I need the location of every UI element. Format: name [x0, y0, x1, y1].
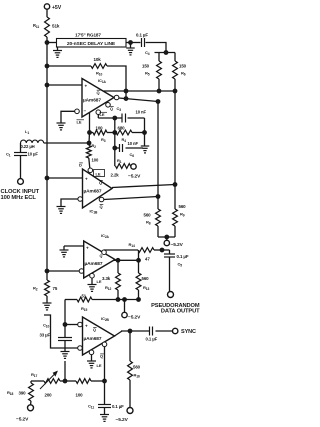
- svg-text:75: 75: [53, 286, 58, 291]
- op-amp IC2B uAm687: [83, 316, 115, 355]
- bottom node rail: [116, 298, 140, 302]
- IC2B Qbar bubble: [102, 342, 107, 347]
- ground IC2B LE: [87, 355, 96, 368]
- wire node down: [114, 118, 116, 166]
- svg-text:100 MHz ECL: 100 MHz ECL: [1, 195, 37, 201]
- wire R13 top: [138, 250, 140, 261]
- wire IC1B minus to ground: [61, 199, 78, 207]
- delay line box: [57, 39, 127, 48]
- IC2A + ground: [60, 246, 84, 257]
- label 100 MHz ECL: [1, 195, 37, 201]
- wire to IC2B +: [65, 324, 78, 326]
- svg-text:D: D: [79, 163, 82, 168]
- label 10nF C3 value: [136, 110, 147, 115]
- label cable 17'5 RG187: [75, 33, 101, 38]
- wire C3 bubble stem: [97, 114, 99, 118]
- svg-text:10 nF: 10 nF: [128, 141, 139, 146]
- svg-text:10k: 10k: [94, 57, 102, 62]
- svg-text:3.3k: 3.3k: [102, 276, 111, 281]
- wire rail to R10: [47, 65, 91, 67]
- resistor R12 3.3k: [102, 260, 120, 299]
- label IC2B Qbar: [100, 354, 104, 359]
- IC1A Qbar bubble: [114, 95, 119, 100]
- svg-text:560: 560: [144, 213, 152, 218]
- svg-text:+5V: +5V: [52, 5, 62, 11]
- svg-text:Q: Q: [97, 90, 100, 95]
- svg-text:−5.2V: −5.2V: [171, 242, 184, 248]
- wire IC1A edge tap down: [88, 113, 91, 143]
- resistor R8 560: [144, 209, 161, 237]
- capacitor C4 0.1uF: [136, 32, 150, 56]
- wire Qbar down: [104, 347, 106, 405]
- IC2A output row: [114, 258, 140, 262]
- node delay output: [129, 41, 133, 45]
- label D bar: [79, 163, 83, 168]
- capacitor C6 10nF: [115, 141, 143, 158]
- IC2A Q bubble top: [102, 250, 107, 255]
- resistor R14 47: [138, 248, 154, 262]
- node IC1A + input: [45, 83, 49, 87]
- capacitor C11 0.1uF: [88, 404, 124, 415]
- label DATA OUTPUT: [161, 309, 200, 315]
- op-amp IC2A uAm687: [84, 233, 115, 278]
- capacitor C9 0.1uF sync: [146, 327, 173, 342]
- resistor R6 150: [173, 53, 187, 92]
- svg-text:+: +: [86, 246, 89, 251]
- resistor R4 680: [115, 126, 145, 144]
- node rail 10k row: [45, 64, 49, 68]
- wire +5V to R11: [46, 9, 48, 17]
- svg-text:µAm687: µAm687: [84, 189, 102, 195]
- resistor R2 100 vertical: [86, 144, 99, 168]
- svg-text:LE: LE: [77, 120, 82, 125]
- IC2A LE label: [97, 279, 102, 284]
- wire delay line output: [126, 42, 141, 44]
- svg-text:10 nF: 10 nF: [136, 110, 147, 115]
- node C10: [63, 323, 67, 327]
- IC2B + bubble: [78, 322, 83, 327]
- svg-text:LE: LE: [100, 112, 105, 117]
- IC1B Q output row: [112, 183, 177, 188]
- svg-text:+: +: [85, 84, 88, 89]
- label LE box IC1B: [94, 170, 105, 177]
- op-amp IC1B uAm687: [83, 169, 113, 215]
- node rail IC1B +: [45, 176, 49, 180]
- svg-text:150: 150: [142, 64, 150, 69]
- node rail-box junction: [45, 41, 49, 45]
- resistor R3 100: [88, 126, 115, 144]
- wire rail to delay line: [47, 42, 57, 44]
- IC1A LE bubble left: [75, 109, 80, 114]
- wire rail to IC2A bubble: [47, 270, 79, 272]
- capacitor C10 33uF: [40, 323, 73, 352]
- svg-text:−5.2V: −5.2V: [128, 315, 141, 321]
- IC1B Qbar row: [104, 195, 160, 200]
- svg-text:SYNC: SYNC: [181, 329, 196, 335]
- wire R14 to C5: [154, 248, 170, 252]
- svg-text:0.1 µF: 0.1 µF: [177, 254, 189, 259]
- svg-text:µAm687: µAm687: [84, 336, 102, 342]
- svg-text:33 µF: 33 µF: [40, 333, 51, 338]
- IC2B LE bubble: [89, 350, 94, 355]
- ground under delay line input: [53, 47, 62, 57]
- svg-text:+: +: [85, 177, 88, 182]
- clock input terminal: [18, 179, 24, 185]
- label R14: [129, 242, 136, 248]
- resistor R13 560: [136, 260, 149, 299]
- -5.2V terminal bottom left: [16, 405, 34, 423]
- svg-text:10 µF: 10 µF: [28, 152, 39, 157]
- svg-text:560: 560: [179, 204, 187, 209]
- pseudorandom output terminal: [168, 292, 174, 298]
- svg-text:51k: 51k: [52, 24, 60, 29]
- wire R16 to term: [129, 380, 131, 408]
- ground IC1B minus: [57, 207, 66, 214]
- IC1A LEbar label: [100, 112, 108, 117]
- wire V2 down: [174, 91, 176, 209]
- wire C10 stem to row: [64, 361, 66, 381]
- IC1B minus bubble: [78, 197, 83, 202]
- wire LE bubble to ground: [61, 111, 75, 123]
- +5V supply terminal: [44, 4, 61, 11]
- ground IC2A LE: [88, 278, 97, 291]
- resistor R1 2.2k: [111, 158, 131, 178]
- wire to R16: [129, 331, 131, 361]
- svg-text:17'5" RG187: 17'5" RG187: [75, 33, 101, 38]
- label CLOCK INPUT: [1, 189, 40, 195]
- svg-text:560: 560: [133, 365, 141, 370]
- svg-text:0.1 µF: 0.1 µF: [146, 337, 158, 342]
- svg-text:+: +: [85, 324, 88, 329]
- ground C10: [61, 352, 70, 359]
- wire Q bubble to R14 row: [104, 249, 138, 251]
- svg-text:0.22 µH: 0.22 µH: [21, 144, 35, 149]
- wire rail to IC1A +: [47, 84, 82, 86]
- svg-text:390: 390: [19, 391, 27, 396]
- IC1A Qbar output line: [119, 97, 160, 104]
- bottom row wire: [31, 379, 105, 383]
- IC2B LE label: [97, 363, 102, 368]
- wire col R8: [157, 197, 159, 210]
- svg-text:−5.2V: −5.2V: [116, 417, 129, 423]
- svg-text:150: 150: [179, 64, 187, 69]
- node L1 feed: [87, 141, 91, 145]
- node rail IC2A minus: [45, 269, 49, 273]
- svg-text:0.1 µF: 0.1 µF: [136, 32, 148, 37]
- op-amp IC1A uAm687: [82, 78, 114, 117]
- svg-text:47: 47: [145, 257, 150, 262]
- top rail of R5 R6: [155, 51, 176, 55]
- svg-text:Q: Q: [100, 204, 103, 209]
- ground C6: [141, 146, 150, 153]
- svg-text:LE: LE: [97, 363, 102, 368]
- IC2B output to sync: [115, 329, 150, 336]
- -5.2V terminal right: [164, 237, 183, 248]
- IC1B D input bubble: [88, 168, 93, 173]
- capacitor C3: [98, 102, 158, 197]
- label Qbar IC1B: [100, 204, 104, 209]
- svg-text:100: 100: [76, 393, 84, 398]
- svg-text:Q: Q: [99, 180, 102, 185]
- svg-text:Q: Q: [93, 328, 96, 332]
- IC1A Q edge bubble: [106, 103, 111, 108]
- IC1A output Q line: [104, 89, 177, 93]
- label PSEUDORANDOM: [151, 303, 200, 309]
- svg-text:680: 680: [118, 126, 126, 131]
- resistor R5 150: [142, 53, 161, 92]
- svg-text:560: 560: [142, 276, 150, 281]
- -5.2V terminal bottom right: [116, 408, 134, 424]
- resistor R11 51k: [33, 17, 60, 37]
- wire R4 corner to ground: [0, 0, 1, 1]
- wire C4 to resistor rail: [146, 43, 167, 53]
- svg-text:2.2k: 2.2k: [111, 173, 120, 178]
- resistor R10 10k: [91, 57, 107, 77]
- ground C11: [100, 415, 109, 422]
- svg-text:−5.2V: −5.2V: [16, 417, 29, 423]
- svg-text:Q: Q: [100, 254, 103, 258]
- IC2B minus feed: [44, 315, 78, 348]
- -5.2V terminal mid: [128, 164, 141, 180]
- svg-text:µAm687: µAm687: [83, 98, 101, 104]
- ground at delay output: [126, 43, 135, 55]
- svg-text:20-nSEC DELAY LINE: 20-nSEC DELAY LINE: [67, 41, 116, 47]
- bottom rail R8R9: [158, 235, 175, 239]
- inductor L1 0.22uH: [21, 129, 90, 149]
- svg-text:µAm687: µAm687: [85, 261, 103, 267]
- svg-text:100: 100: [92, 158, 99, 163]
- IC1A LE label: [77, 120, 85, 125]
- IC2A LE bubble: [90, 273, 95, 278]
- wire rail to R2: [46, 271, 48, 280]
- resistor R19 100: [76, 379, 92, 398]
- svg-text:200: 200: [45, 393, 53, 398]
- IC2B minus bubble: [78, 346, 83, 351]
- IC1A LEbar bubble: [96, 110, 101, 115]
- ground R2: [43, 303, 52, 310]
- svg-text:−5.2V: −5.2V: [128, 174, 141, 180]
- SYNC terminal: [173, 328, 197, 335]
- resistor R2 75: [33, 280, 58, 303]
- IC2A minus bubble: [79, 269, 84, 274]
- wire rail to IC1B +: [47, 177, 83, 179]
- svg-text:100: 100: [96, 126, 104, 131]
- wire down to D row: [64, 300, 66, 325]
- svg-text:−: −: [84, 109, 87, 114]
- resistor R15: [65, 293, 118, 312]
- IC1B Qbar bubble bottom: [99, 197, 104, 202]
- node bottom row right: [103, 379, 107, 383]
- wire R10 to feed corner: [107, 66, 126, 99]
- svg-text:LE: LE: [96, 172, 101, 177]
- svg-text:51: 51: [82, 293, 87, 298]
- capacitor C1 10uF: [6, 143, 38, 179]
- pot R17 200: [31, 372, 60, 398]
- svg-text:0.1 µF: 0.1 µF: [112, 404, 124, 409]
- wire R11 down left rail: [46, 37, 48, 271]
- svg-text:DATA OUTPUT: DATA OUTPUT: [161, 309, 200, 315]
- -5.2V terminal mid2: [122, 300, 141, 321]
- ground IC1A LE: [57, 123, 66, 130]
- resistor R9 560: [173, 204, 187, 237]
- resistor R16 560: [128, 361, 141, 380]
- label Qbar C3: [110, 106, 121, 112]
- node R3R4 row: [113, 131, 117, 135]
- node C6 row: [113, 146, 117, 150]
- capacitor C5 0.1uF: [164, 250, 189, 292]
- resistor R18 390: [7, 381, 33, 405]
